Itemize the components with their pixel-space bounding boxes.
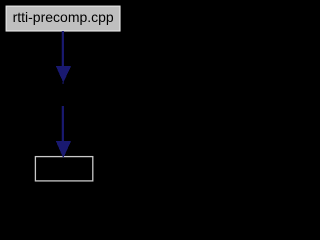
node rtti-precomp.cpp (filled box) bbox=[6, 6, 120, 31]
arrowhead 2 bbox=[56, 141, 71, 158]
node label rtti-precomp.cpp bbox=[0, 7, 127, 27]
node: empty dependency box (outline) bbox=[35, 157, 92, 181]
arrowhead 1 tip tail bbox=[62, 82, 63, 84]
wire: edge 1 line bbox=[62, 31, 64, 66]
arrowhead 1 bbox=[56, 66, 71, 83]
wire: edge 2 line bbox=[62, 106, 64, 141]
